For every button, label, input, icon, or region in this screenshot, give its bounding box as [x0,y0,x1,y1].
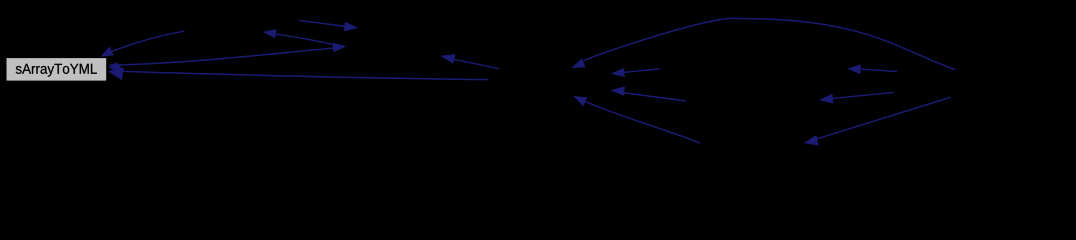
edge F to E2 (wire) [821,92,894,99]
arrowhead A6 into M2 right [440,54,455,64]
arrowhead A9 into A right lower [611,86,625,96]
arrowhead A3l into sArrayToYML small [108,62,117,68]
node sArrayToYML [6,58,107,82]
edge top node to B1 (wire) [299,20,356,27]
arrowhead A13 into Cbottom [804,135,819,146]
edge Cbottom to A curve (wire) [586,102,701,144]
arrowhead A3r into M2 [333,43,347,53]
edge M1 to sArrayToYML (wire) [112,31,185,51]
edge A to M2 (wire) [444,57,500,69]
arrowhead A4 into B1 [344,22,359,32]
edge F to E1 (wire) [861,69,897,71]
arrowhead A1 into sArrayToYML corner [100,47,114,57]
arrowhead A8 into A right upper [611,68,625,77]
arrowhead A11 into E1 [847,64,861,74]
edge E2 to A (wire) [613,91,686,101]
arrowhead A5b into sArrayToYML overlap [108,64,121,73]
edge M2 to M1 (wire) [266,33,343,47]
edge R to A big arc (wire) [584,18,956,69]
edge A to sArrayToYML long (wire) [111,71,489,80]
arrowhead A12 into E2 [819,94,833,104]
arrowhead A10 into A bottom [573,96,587,106]
edge R to Cbottom (wire) [807,97,951,142]
edge E1 to A (wire) [615,69,660,74]
edge pair sArrayToYML/M2 (wire) [109,47,344,65]
arrowhead A2 into M1 [262,29,276,38]
arrowhead A5a into sArrayToYML big [108,67,124,80]
arrowhead A7 into A top [571,58,585,68]
